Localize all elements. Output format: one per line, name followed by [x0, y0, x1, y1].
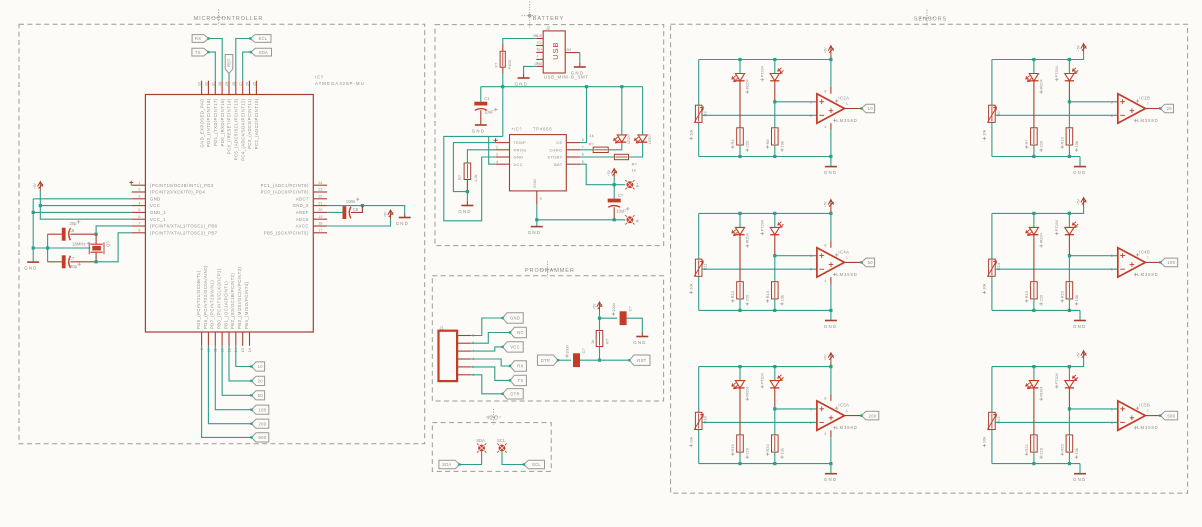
- wire output IC4A to net 50: [844, 261, 861, 263]
- svg-text:PB5_(SCK/PCINT5): PB5_(SCK/PCINT5): [264, 230, 309, 235]
- junction LED top rail IC2A: [738, 58, 741, 61]
- ground symbol shield: [579, 63, 581, 67]
- wire photodiode to resistor R10: [1068, 102, 1070, 128]
- svg-text:IR204: IR204: [746, 233, 750, 243]
- IC2 pin1 unconnected marker: [494, 138, 498, 143]
- ground symbol IC4B: [1079, 319, 1081, 321]
- wire VCC pin4 branch: [40, 205, 131, 207]
- wire C5 to junction: [351, 206, 363, 213]
- junction XTAL2 bottom: [95, 260, 98, 263]
- svg-text:R12: R12: [730, 290, 735, 298]
- flag RST vertical: [225, 55, 233, 74]
- wire pin21 GND_2 to ground: [327, 206, 405, 214]
- svg-text:500: 500: [1167, 413, 1175, 418]
- svg-text:F?: F?: [494, 62, 499, 67]
- wire output IC2A to net 10: [844, 108, 861, 110]
- svg-text:VCC_1: VCC_1: [150, 217, 166, 222]
- wire RX to pin 30: [209, 39, 223, 81]
- flag SDA: [251, 48, 272, 56]
- pad SDA testpoint: [478, 445, 485, 452]
- wire photodiode to non-inverting input IC2B: [1069, 101, 1117, 103]
- svg-text:PC3_(ADC3/PCINT11): PC3_(ADC3/PCINT11): [247, 98, 252, 149]
- photodiode D6 PT204: [1068, 367, 1070, 381]
- junction XTAL1: [95, 233, 98, 236]
- LED2 STDBY: [638, 135, 647, 142]
- svg-text:GND: GND: [571, 71, 584, 76]
- pad B- battery negative: [627, 216, 634, 223]
- svg-text:6: 6: [1111, 268, 1113, 272]
- flag SCL i2c: [524, 460, 545, 469]
- svg-text:10: 10: [868, 106, 874, 111]
- ground symbol C1: [480, 121, 482, 125]
- junction fuse-rail: [501, 85, 504, 88]
- svg-text:PT204: PT204: [761, 373, 765, 384]
- J1 pin 6: [457, 335, 471, 337]
- wire GND pin3 branch: [33, 198, 131, 200]
- wire left rail IC4A: [698, 213, 700, 259]
- svg-text:BATTERY: BATTERY: [533, 16, 564, 22]
- svg-text:24: 24: [318, 181, 322, 185]
- resistor R20 10k: [774, 436, 776, 451]
- IC2 pin 9 GND pad: [536, 191, 538, 205]
- svg-text:1k: 1k: [632, 168, 636, 173]
- flag net 500 sensor: [1160, 411, 1177, 420]
- svg-text:GND_1: GND_1: [150, 210, 166, 215]
- wire +5V to VCC pin4: [40, 191, 131, 220]
- junction resistor2 bottom rail IC2A: [773, 155, 776, 158]
- wire LED2 to rail: [642, 87, 644, 135]
- svg-text:10k: 10k: [982, 437, 987, 443]
- svg-text:10uF: 10uF: [484, 109, 494, 114]
- wire USB GND pin to ground: [524, 66, 537, 74]
- svg-text:6: 6: [582, 153, 584, 157]
- wire top rail IC2B: [992, 59, 1070, 61]
- svg-text:3: 3: [810, 254, 812, 258]
- wire net 500 from IC1: [202, 346, 252, 438]
- IC2 pin 7 CHRG: [566, 149, 580, 151]
- resistor R15 220: [1033, 283, 1035, 298]
- wire IC2 GND pin routing: [444, 136, 503, 220]
- svg-text:R13: R13: [765, 290, 770, 298]
- svg-text:22: 22: [318, 195, 322, 199]
- junction +5V rail IC4B: [1068, 212, 1071, 215]
- trimmer R11 10k: [698, 260, 700, 275]
- svg-text:PC1_(ADC1/PCINT9): PC1_(ADC1/PCINT9): [261, 183, 309, 188]
- supply +5V arrow AVCC: [388, 210, 393, 219]
- svg-text:10k: 10k: [1074, 141, 1079, 147]
- svg-text:+5V: +5V: [33, 182, 37, 189]
- svg-text:4: 4: [496, 160, 498, 164]
- IC1 pin 32 PD2_(INT0/PCINT18): [207, 81, 209, 95]
- svg-text:19: 19: [318, 215, 322, 219]
- svg-text:PT204: PT204: [1055, 373, 1059, 384]
- svg-text:DTR: DTR: [510, 392, 520, 397]
- svg-text:7: 7: [582, 145, 584, 149]
- wire left rail IC5A: [698, 367, 700, 413]
- svg-text:PC6_(/RESET/PCINT14): PC6_(/RESET/PCINT14): [227, 98, 232, 154]
- svg-text:18: 18: [318, 222, 322, 226]
- svg-text:IC5B: IC5B: [1139, 403, 1150, 408]
- resistor R13 10k: [774, 283, 776, 298]
- wire R20 to bottom rail: [774, 452, 776, 464]
- flag RX programmer: [510, 361, 526, 371]
- svg-text:PD6_(PCINT22/OC0A/AIN0): PD6_(PCINT22/OC0A/AIN0): [203, 265, 208, 329]
- wire R10 to bottom rail: [1068, 145, 1070, 157]
- resistor R4 220: [739, 129, 741, 144]
- wire photodiode to resistor R13: [774, 256, 776, 282]
- wire SDA to pin 27: [243, 52, 251, 81]
- wire bottom rail IC4A: [699, 309, 831, 311]
- wire J1 pin 1 to DTR: [471, 375, 503, 394]
- capacitor C2 10uF battery: [613, 185, 615, 199]
- svg-text:+IC?: +IC?: [511, 127, 522, 132]
- svg-text:100n: 100n: [346, 199, 356, 204]
- svg-text:I2C: I2C: [487, 415, 498, 421]
- pad SCL testpoint: [499, 445, 506, 452]
- svg-text:GND: GND: [515, 82, 528, 87]
- IC1 pin 8 (PCINT7/XTAL2/TOSC2)_PB7: [132, 232, 146, 234]
- IC2 pin 4 VCC: [496, 163, 510, 165]
- svg-text:PD0_(RXD/PCINT16): PD0_(RXD/PCINT16): [220, 98, 225, 146]
- svg-text:10: 10: [258, 364, 264, 369]
- svg-text:GND: GND: [532, 179, 537, 188]
- svg-text:PC4_(ADC4/SDA/PCINT12): PC4_(ADC4/SDA/PCINT12): [240, 98, 245, 161]
- svg-text:2: 2: [810, 114, 812, 118]
- wire C7 right lead: [70, 261, 96, 263]
- svg-text:R15: R15: [1024, 290, 1029, 298]
- svg-text:10k: 10k: [689, 283, 694, 289]
- svg-text:PB1_(OC1A/PCINT1): PB1_(OC1A/PCINT1): [223, 281, 228, 329]
- svg-text:20: 20: [318, 208, 322, 212]
- svg-text:16: 16: [248, 348, 252, 352]
- IC1 pin 19 ADC6: [313, 218, 327, 220]
- connector J1 body: [439, 331, 458, 381]
- wire fuse to rail: [502, 67, 504, 73]
- section frame BATTERY: [435, 25, 664, 246]
- svg-text:+5V: +5V: [607, 169, 611, 176]
- wire photodiode to resistor R20: [774, 409, 776, 435]
- svg-text:2: 2: [496, 145, 498, 149]
- svg-text:SDA: SDA: [442, 462, 452, 467]
- svg-text:50: 50: [868, 260, 874, 265]
- LED LED7 IR emitter: [739, 367, 741, 381]
- supply +5V arrow IC4A: [828, 200, 833, 209]
- svg-text:C6: C6: [69, 228, 75, 233]
- resistor R23 10k: [1068, 436, 1070, 451]
- svg-text:ADC7: ADC7: [296, 196, 309, 201]
- wire R19 to bottom rail: [739, 452, 741, 464]
- svg-text:100: 100: [258, 407, 266, 412]
- svg-text:PT204: PT204: [761, 220, 765, 231]
- wire rail to +5V IC4B: [1069, 207, 1083, 214]
- IC1 pin 31 PD1_(TXD/PCINT17): [214, 81, 216, 95]
- IC1 pin 18 AVCC: [313, 225, 327, 227]
- svg-text:R?: R?: [632, 162, 638, 167]
- junction +5V rail IC2B: [1068, 58, 1071, 61]
- wire wiper to inverting input IC2B: [995, 114, 1118, 116]
- wire rail to +5V IC2B: [1069, 53, 1083, 60]
- svg-text:GND: GND: [24, 266, 37, 271]
- svg-text:PD2_(INT0/PCINT18): PD2_(INT0/PCINT18): [206, 98, 211, 147]
- junction pad-gnd: [535, 218, 538, 221]
- svg-text:PT204: PT204: [1055, 66, 1059, 77]
- wire wiper to inverting input IC2A: [702, 114, 817, 116]
- junction resistor2 bottom rail IC5A: [773, 462, 776, 465]
- IC1 pin 30 PD0_(RXD/PCINT16): [221, 81, 223, 95]
- flag net 200 sensor: [862, 411, 879, 420]
- resistor R5 1k CHRG led: [580, 149, 593, 151]
- wire LED1 to rail: [621, 87, 623, 135]
- svg-text:J2: J2: [546, 26, 551, 31]
- wire R15 to bottom rail: [1033, 299, 1035, 311]
- wire BAT to +5V junction: [580, 164, 614, 185]
- svg-text:15: 15: [241, 348, 245, 352]
- flag net 200: [252, 419, 269, 428]
- junction A reset pullup: [598, 317, 601, 320]
- IC1 pin 2 (PCINT20/XCK/T0)_PD4: [132, 191, 146, 193]
- svg-text:5: 5: [1111, 254, 1113, 258]
- J2 shield pin SH: [565, 52, 580, 54]
- svg-text:PC0_(ADC0/PCINT8): PC0_(ADC0/PCINT8): [261, 190, 309, 195]
- svg-text:R19: R19: [730, 443, 735, 451]
- svg-text:CHRG: CHRG: [549, 147, 562, 152]
- svg-text:33: 33: [198, 82, 202, 86]
- svg-text:6: 6: [138, 215, 140, 219]
- wire pin8 XTAL2: [96, 233, 132, 262]
- ground symbol right of IC1: [404, 214, 406, 218]
- svg-text:28: 28: [232, 82, 236, 86]
- ground symbol programmer: [641, 333, 643, 337]
- svg-text:5: 5: [1111, 407, 1113, 411]
- IC1 pin 22 ADC7: [313, 198, 327, 200]
- trimmer R3 10k: [698, 106, 700, 121]
- J2 pin 3 D+: [536, 51, 543, 53]
- junction LED top rail IC5B: [1032, 365, 1035, 368]
- wire J1 pin 4 to VCC: [471, 347, 503, 351]
- svg-text:17: 17: [318, 229, 322, 233]
- svg-text:3: 3: [810, 100, 812, 104]
- section frame MICROCONTROLLER: [19, 24, 425, 444]
- svg-text:3: 3: [810, 407, 812, 411]
- IC1 pin 21 GND_2: [313, 205, 327, 207]
- IC1 pin 24 PC1_(ADC1/PCINT9): [313, 184, 327, 186]
- photodiode D4 PT204: [1068, 213, 1070, 227]
- svg-text:DTR: DTR: [541, 358, 551, 363]
- resistor R10 10k: [1068, 129, 1070, 144]
- junction resistor bottom rail IC4A: [738, 309, 741, 312]
- svg-text:10k: 10k: [779, 141, 784, 147]
- svg-text:GND_2: GND_2: [293, 203, 309, 208]
- flag RX: [192, 35, 208, 43]
- wire to ground IC4B: [1079, 310, 1081, 320]
- wire photodiode to non-inverting input IC2A: [775, 101, 817, 103]
- wire R16 to bottom rail: [1068, 299, 1070, 311]
- junction photodiode output IC2A: [773, 100, 776, 103]
- wire CE to rail: [580, 87, 586, 143]
- svg-text:IC4B: IC4B: [1139, 249, 1150, 254]
- flag net 50 sensor: [862, 258, 875, 267]
- wire TX to pin 31: [208, 52, 215, 81]
- supply +5V arrow IC2B: [1081, 44, 1086, 53]
- wire to ground IC5A: [830, 464, 832, 474]
- junction power bottom rail IC4A: [829, 309, 832, 312]
- LED1 CHRG: [617, 135, 626, 142]
- op-amp IC5B LM358D: [1118, 401, 1146, 430]
- svg-text:ATMEGA328P-MU: ATMEGA328P-MU: [315, 81, 365, 86]
- svg-text:IR204: IR204: [1040, 386, 1044, 396]
- IC1 pin 17 PB5_(SCK/PCINT5): [313, 232, 327, 234]
- svg-text:+5V: +5V: [1076, 352, 1080, 359]
- wire top rail IC2A: [699, 59, 831, 61]
- section frame PROGRAMMER: [432, 276, 663, 401]
- wire C4 to junction B: [580, 359, 600, 361]
- flag net 20: [252, 376, 265, 385]
- wire net 10 from IC1: [236, 346, 252, 367]
- IC1 pin 27 PC4_(ADC4/SDA/PCINT12): [242, 81, 244, 95]
- svg-text:LM358D: LM358D: [836, 425, 857, 430]
- svg-text:GND: GND: [458, 209, 471, 214]
- svg-text:5: 5: [138, 208, 140, 212]
- junction photodiode output IC4A: [773, 254, 776, 257]
- IC1 ATMEGA328P body: [145, 95, 313, 333]
- svg-text:IC2A: IC2A: [838, 96, 849, 101]
- svg-text:GND: GND: [150, 196, 161, 201]
- svg-text:SCL: SCL: [497, 438, 506, 443]
- junction caps common: [46, 246, 49, 249]
- wire left rail IC2B: [991, 60, 993, 106]
- capacitor C7 20p: [62, 255, 66, 268]
- J1 pin 4: [457, 350, 471, 352]
- svg-text:8: 8: [582, 138, 584, 142]
- wire output IC5A to net 200: [844, 415, 861, 417]
- svg-text:VCC: VCC: [150, 203, 160, 208]
- svg-text:C7: C7: [69, 256, 75, 261]
- wire left rail IC5B: [991, 367, 993, 413]
- IC1 pin 29 PC6_(/RESET/PCINT14): [228, 81, 230, 95]
- flag net 100 sensor: [1160, 258, 1177, 267]
- resistor R2 1k reset pullup: [599, 318, 601, 330]
- ground symbol IC2 pad: [536, 220, 538, 227]
- svg-text:10k: 10k: [1074, 295, 1079, 301]
- svg-text:50: 50: [258, 393, 264, 398]
- svg-text:ADC6: ADC6: [296, 217, 309, 222]
- svg-text:220: 220: [745, 294, 750, 301]
- wire +5V to junction A: [599, 311, 601, 318]
- svg-text:PD5_(PCINT21/OC0B/T1): PD5_(PCINT21/OC0B/T1): [196, 270, 201, 329]
- wire J1 pin 3 to RX: [471, 359, 510, 366]
- supply +5V arrow IC5B: [1081, 351, 1086, 360]
- junction LED top rail IC4A: [738, 212, 741, 215]
- svg-text:+5V: +5V: [824, 354, 828, 361]
- IC1 pin 1 (PCINT19/OC2B/INT1)_PD3: [132, 184, 146, 186]
- wire R5 to LED1: [608, 143, 622, 150]
- op-amp power pins IC2A: [830, 60, 832, 88]
- svg-text:10k: 10k: [689, 130, 694, 136]
- svg-text:IC2B: IC2B: [1139, 96, 1150, 101]
- wire rail to +5V IC5B: [1069, 360, 1083, 367]
- svg-text:LED?: LED?: [647, 133, 652, 144]
- capacitor C3 100n filter: [620, 311, 627, 325]
- wire C6 left lead: [48, 233, 62, 235]
- J2 pin 2 D-: [536, 45, 543, 47]
- svg-text:Q?: Q?: [106, 241, 111, 247]
- svg-text:26: 26: [246, 82, 250, 86]
- wire VBUS rail: [481, 86, 643, 88]
- svg-text:GND: GND: [514, 155, 524, 160]
- ground symbol left: [32, 261, 34, 263]
- ground symbol IC2A: [830, 166, 832, 168]
- junction LED top rail IC5A: [738, 365, 741, 368]
- junction VCC: [39, 204, 42, 207]
- IC1 pin 4 VCC: [132, 205, 146, 207]
- junction +5V rail corner IC5A: [829, 365, 832, 368]
- junction resistor2 bottom rail IC5B: [1068, 462, 1071, 465]
- wire C1 to ground: [480, 110, 482, 121]
- wire J1 pin 6 to GND: [471, 318, 503, 336]
- resistor R7 220: [1033, 129, 1035, 144]
- flag NC programmer: [510, 327, 526, 337]
- wire C7 left lead: [48, 261, 62, 263]
- ground symbol IC2B: [1079, 166, 1081, 168]
- svg-text:GND: GND: [824, 324, 837, 329]
- wire left rail IC2A: [698, 60, 700, 106]
- supply +5V arrow battery: [612, 169, 617, 178]
- wire bottom rail IC2B: [992, 156, 1080, 158]
- wire J1 pin 2 to TX: [471, 367, 510, 381]
- svg-text:NC: NC: [517, 330, 524, 335]
- svg-text:+5V: +5V: [1076, 198, 1080, 205]
- junction resistor bottom rail IC2B: [1032, 155, 1035, 158]
- svg-text:GND: GND: [472, 129, 485, 134]
- wire J1 pin 5 to NC: [471, 333, 510, 344]
- IC2 pin 8 CE: [566, 142, 580, 144]
- junction C2 gnd: [613, 218, 616, 221]
- svg-text:6: 6: [1111, 421, 1113, 425]
- IC2 pin 5 BAT: [566, 163, 580, 165]
- IC1 pin 16 PB4_(MISO/PCINT4): [249, 332, 251, 346]
- svg-text:IR204: IR204: [1040, 233, 1044, 243]
- op-amp IC2B LM358D: [1118, 94, 1146, 123]
- svg-text:IR204: IR204: [1040, 79, 1044, 89]
- flag net 20 sensor: [1160, 104, 1173, 113]
- wire R4 to bottom rail: [739, 145, 741, 157]
- svg-text:TX: TX: [518, 378, 524, 383]
- IC1 pin 14 PB2_(SS/OC1B/PCINT2): [235, 332, 237, 346]
- trimmer R6 10k: [991, 106, 993, 121]
- junction LED top rail IC2B: [1032, 58, 1035, 61]
- IC1 pin 12 PB0_(PCINT0/CLKO/ICP1): [221, 332, 223, 346]
- fuse F1 500mA: [502, 52, 504, 66]
- junction LED top rail IC4B: [1032, 212, 1035, 215]
- svg-text:31: 31: [211, 82, 215, 86]
- wire SCL to flag: [502, 451, 524, 464]
- J1 pin 2: [457, 366, 471, 368]
- svg-text:PB0_(PCINT0/CLKO/ICP1): PB0_(PCINT0/CLKO/ICP1): [216, 268, 221, 329]
- IC1 pin 33 GND_EXPOSED_PAD: [201, 81, 203, 95]
- svg-text:220: 220: [1039, 140, 1044, 147]
- wire pin20 AREF to C5: [327, 211, 342, 213]
- wire gnd rail to B- pad: [537, 219, 626, 221]
- svg-text:P400: P400: [507, 59, 512, 69]
- svg-text:5: 5: [582, 160, 584, 164]
- section frame I2C: [432, 423, 551, 472]
- svg-text:+5V: +5V: [1076, 44, 1080, 51]
- svg-text:10k: 10k: [982, 130, 987, 136]
- svg-text:32: 32: [205, 82, 209, 86]
- wire bottom rail IC5B: [992, 463, 1080, 465]
- svg-text:5: 5: [1111, 100, 1113, 104]
- IC1 pin 13 PB1_(OC1A/PCINT1): [228, 332, 230, 346]
